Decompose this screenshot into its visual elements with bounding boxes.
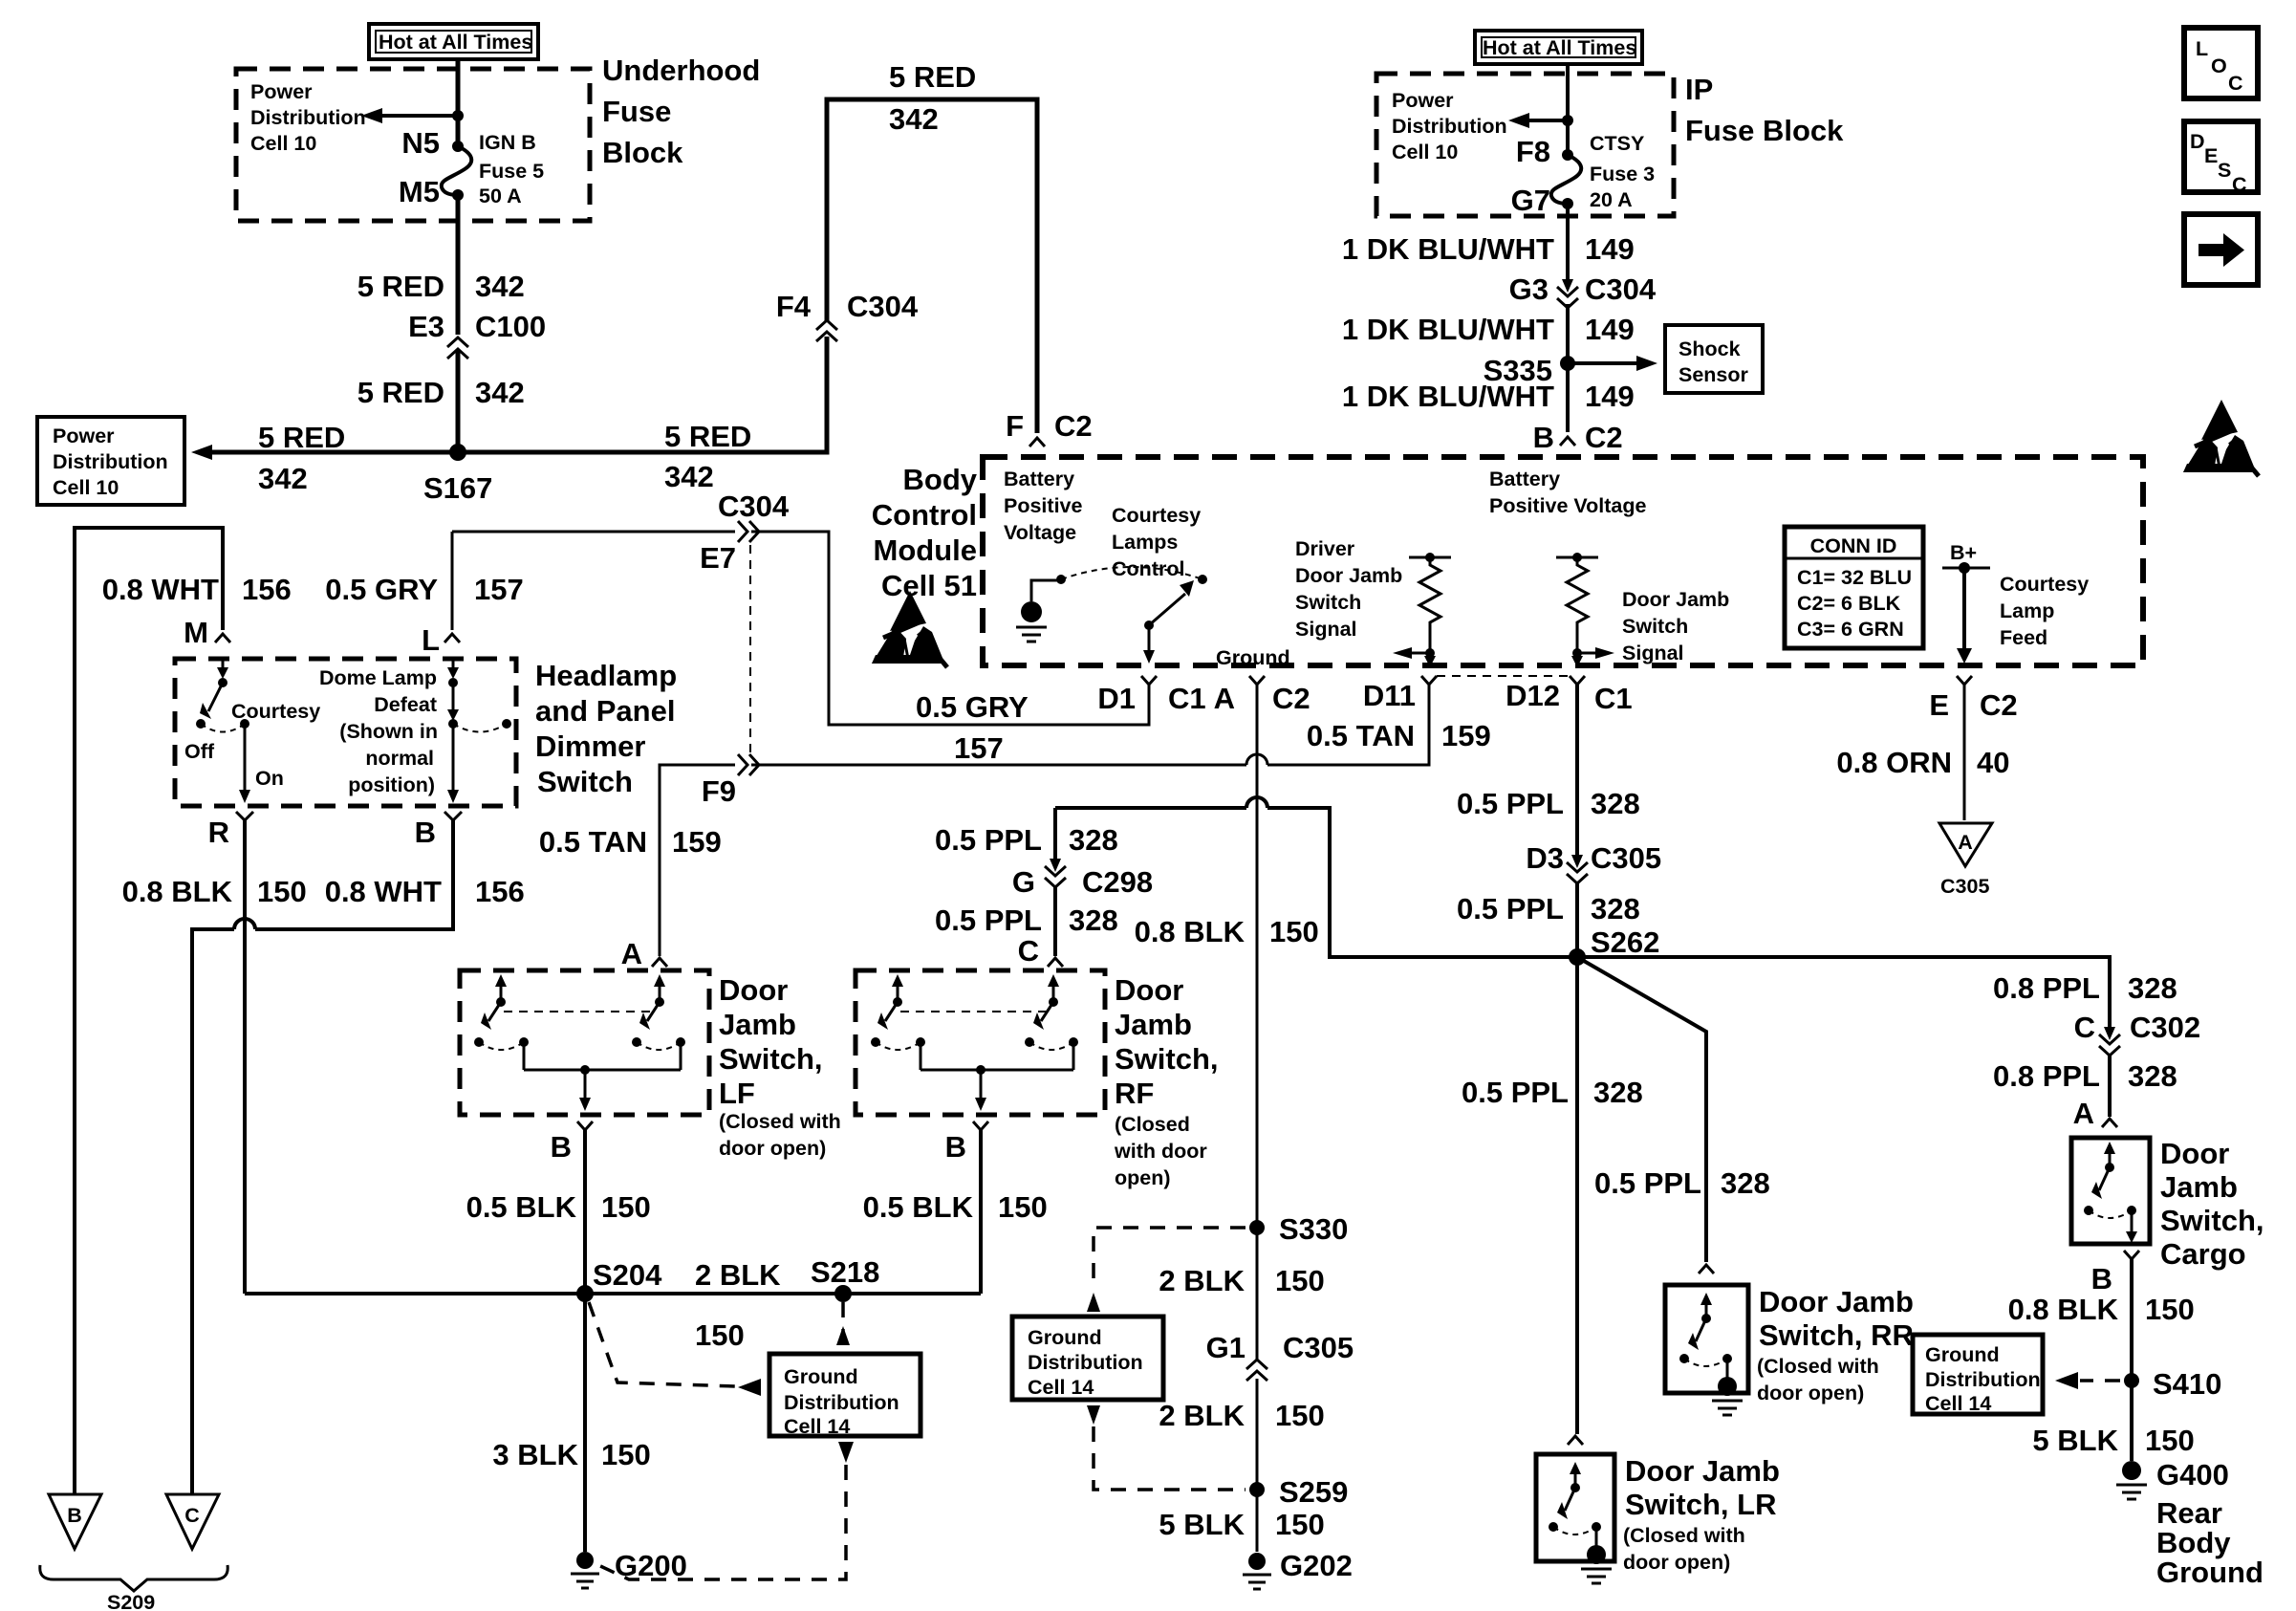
ground G400 xyxy=(2116,1461,2147,1499)
label: CTSY Fuse 3 20 A xyxy=(1590,132,1655,211)
svg-text:Door: Door xyxy=(719,973,788,1007)
svg-text:Distribution: Distribution xyxy=(784,1391,899,1414)
svg-text:Jamb: Jamb xyxy=(719,1008,796,1041)
svg-text:Distribution: Distribution xyxy=(250,106,366,129)
wire: arrow to Power Distribution xyxy=(382,114,458,118)
svg-text:Voltage: Voltage xyxy=(1004,521,1076,544)
svg-text:Cell 10: Cell 10 xyxy=(250,132,316,155)
svg-text:R: R xyxy=(208,816,229,849)
svg-text:1 DK BLU/WHT: 1 DK BLU/WHT xyxy=(1342,380,1554,413)
svg-text:D1: D1 xyxy=(1097,682,1136,715)
svg-text:S204: S204 xyxy=(593,1258,662,1292)
svg-text:2 BLK: 2 BLK xyxy=(1159,1264,1245,1297)
svg-text:G1: G1 xyxy=(1206,1331,1245,1364)
pin A of cargo switch xyxy=(2102,1119,2117,1127)
svg-text:C305: C305 xyxy=(1591,841,1661,875)
wire hop over ground wire xyxy=(1246,797,1267,808)
svg-text:Cell 14: Cell 14 xyxy=(1028,1376,1094,1399)
svg-text:150: 150 xyxy=(2145,1424,2195,1457)
pin F of BCM connector C2 xyxy=(1029,438,1045,446)
svg-text:Control: Control xyxy=(872,498,977,532)
svg-text:Switch,: Switch, xyxy=(2160,1204,2264,1237)
svg-text:S209: S209 xyxy=(107,1591,155,1611)
svg-text:(Closed with: (Closed with xyxy=(1757,1355,1879,1378)
resistor (driver door jamb switch signal pull-up) xyxy=(1393,553,1451,667)
label: (Closed with door open) xyxy=(1623,1524,1745,1574)
svg-text:normal: normal xyxy=(365,747,434,770)
svg-text:156: 156 xyxy=(242,573,292,606)
RF switch right contact set xyxy=(1025,974,1078,1050)
svg-text:0.5 PPL: 0.5 PPL xyxy=(1462,1076,1569,1109)
BCM pin row: D1 C1 xyxy=(1141,676,1157,685)
svg-text:159: 159 xyxy=(1441,719,1491,752)
label: Door Jamb Switch, RR xyxy=(1759,1285,1914,1352)
connector C100 (inline, up chevrons) xyxy=(447,337,468,359)
svg-text:0.5 PPL: 0.5 PPL xyxy=(1457,892,1564,925)
svg-text:Positive: Positive xyxy=(1004,494,1082,517)
wire: 0.5 PPL 328 diagonal from S262 to RR switch xyxy=(1577,957,1706,1262)
svg-text:B: B xyxy=(2091,1262,2112,1295)
svg-text:Battery: Battery xyxy=(1004,468,1074,490)
svg-text:342: 342 xyxy=(475,270,525,303)
fuse F3: CTSY Fuse 3 20 A xyxy=(1551,149,1581,209)
svg-text:N5: N5 xyxy=(401,126,440,160)
svg-text:150: 150 xyxy=(998,1190,1048,1224)
svg-text:150: 150 xyxy=(1275,1508,1325,1541)
LR switch contacts with ground xyxy=(1549,1462,1612,1583)
svg-text:2 BLK: 2 BLK xyxy=(695,1258,781,1292)
svg-text:150: 150 xyxy=(695,1318,745,1352)
svg-text:Feed: Feed xyxy=(2000,626,2047,649)
svg-text:5 RED: 5 RED xyxy=(664,420,751,453)
label: Battery Positive Voltage (left) xyxy=(1004,468,1082,544)
svg-text:Cell 10: Cell 10 xyxy=(53,476,119,499)
label: Dome Lamp Defeat (Shown in normal position) xyxy=(319,666,438,796)
svg-text:50 A: 50 A xyxy=(479,185,522,207)
pin B of BCM connector C2 xyxy=(1560,437,1575,446)
component: Door Jamb Switch RR box xyxy=(1665,1285,1748,1393)
svg-text:Switch: Switch xyxy=(1622,615,1688,638)
svg-text:5 RED: 5 RED xyxy=(357,376,444,409)
wire: 0.8 PPL 328 from S262 right to cargo branch xyxy=(1577,957,2110,1031)
svg-text:Fuse Block: Fuse Block xyxy=(1685,114,1844,147)
connector C298 G (inline, down arrow + chevrons) xyxy=(1045,859,1066,887)
svg-text:C304: C304 xyxy=(847,290,919,323)
svg-text:D3: D3 xyxy=(1526,841,1564,875)
RF switch left contact set xyxy=(871,974,925,1050)
component: Body Control Module dashed box xyxy=(983,457,2143,665)
icon: ESD symbol (top right corner) xyxy=(2183,400,2259,476)
svg-text:Positive Voltage: Positive Voltage xyxy=(1489,494,1647,517)
svg-text:328: 328 xyxy=(2128,1059,2177,1093)
svg-text:Distribution: Distribution xyxy=(53,450,168,473)
svg-text:0.5 PPL: 0.5 PPL xyxy=(935,823,1042,857)
svg-text:F8: F8 xyxy=(1516,135,1550,168)
label: Power Distribution Cell 10 (in underhood box) xyxy=(250,80,366,155)
wire: 1 DK BLU/WHT 149 to S335 xyxy=(1566,304,1570,432)
connector C304 F4 (inline, up chevrons) xyxy=(816,320,837,341)
svg-text:0.8 WHT: 0.8 WHT xyxy=(325,875,442,908)
label: Door Jamb Switch, LR xyxy=(1625,1454,1780,1521)
svg-text:328: 328 xyxy=(1591,787,1640,820)
svg-text:F9: F9 xyxy=(702,774,736,808)
svg-text:Door Jamb: Door Jamb xyxy=(1759,1285,1914,1318)
svg-text:Cell 14: Cell 14 xyxy=(784,1415,850,1438)
svg-text:B: B xyxy=(551,1130,572,1164)
svg-text:D: D xyxy=(2190,130,2205,153)
pin R of dimmer switch xyxy=(236,812,253,820)
connector C305 G1 (inline, up chevrons) xyxy=(1246,1360,1267,1381)
svg-text:0.5 GRY: 0.5 GRY xyxy=(916,690,1029,724)
svg-text:(Closed with: (Closed with xyxy=(1623,1524,1745,1547)
splice S218 xyxy=(834,1285,852,1302)
ground G200 xyxy=(571,1552,599,1588)
svg-text:Jamb: Jamb xyxy=(2160,1170,2238,1204)
label: Battery Positive Voltage (right) xyxy=(1489,468,1647,517)
svg-text:150: 150 xyxy=(2145,1293,2195,1326)
svg-text:B: B xyxy=(945,1130,966,1164)
label: Door Jamb Switch, Cargo xyxy=(2160,1137,2264,1271)
wire: arrow to Shock Sensor xyxy=(1568,361,1636,365)
svg-text:F4: F4 xyxy=(776,290,812,323)
LF output bus xyxy=(524,1042,681,1111)
icon: DESC box xyxy=(2184,121,2258,196)
svg-text:Switch, RR: Switch, RR xyxy=(1759,1318,1914,1352)
wire: arrow to Power Distribution xyxy=(1529,119,1568,122)
wire: feed into fuse 3 xyxy=(1566,64,1570,155)
svg-text:D11: D11 xyxy=(1363,679,1416,712)
svg-text:Body: Body xyxy=(2156,1526,2231,1559)
wire: 0.5 PPL 328 from S262 elbow down to C298 and pin C xyxy=(1053,808,1057,956)
svg-text:Defeat: Defeat xyxy=(374,693,437,716)
splice S204 xyxy=(576,1285,594,1302)
component: Ground Distribution Cell 14 box (right of S330) xyxy=(1012,1317,1163,1400)
svg-text:Control: Control xyxy=(1112,557,1184,580)
icon: LOC box xyxy=(2184,28,2258,98)
svg-text:Body: Body xyxy=(903,463,978,496)
label: Underhood Fuse Block xyxy=(602,54,760,169)
component: Ground Distribution Cell 14 box (center) xyxy=(769,1354,921,1438)
svg-text:A: A xyxy=(2073,1097,2094,1130)
svg-text:with door: with door xyxy=(1114,1140,1207,1163)
svg-text:Driver: Driver xyxy=(1295,537,1355,560)
svg-text:5 BLK: 5 BLK xyxy=(1159,1508,1245,1541)
svg-text:B: B xyxy=(415,816,436,849)
svg-text:342: 342 xyxy=(475,376,525,409)
svg-text:Ground: Ground xyxy=(1028,1326,1102,1349)
svg-text:C304: C304 xyxy=(1585,272,1657,306)
svg-text:Ground: Ground xyxy=(1216,646,1290,669)
wire: 0.8 BLK 150 from cargo pin B down to S410 xyxy=(2130,1259,2134,1461)
svg-text:157: 157 xyxy=(474,573,524,606)
svg-text:door open): door open) xyxy=(1623,1551,1730,1574)
wire hop over ground wire xyxy=(1246,754,1267,765)
svg-text:S218: S218 xyxy=(811,1255,879,1289)
svg-text:0.5 PPL: 0.5 PPL xyxy=(1594,1166,1701,1200)
splice S167 xyxy=(449,444,466,461)
svg-text:1 DK BLU/WHT: 1 DK BLU/WHT xyxy=(1342,232,1554,266)
svg-text:1 DK BLU/WHT: 1 DK BLU/WHT xyxy=(1342,313,1554,346)
svg-text:Module: Module xyxy=(874,533,978,567)
label: Headlamp and Panel Dimmer Switch xyxy=(535,659,677,798)
pin B of LF switch xyxy=(577,1121,593,1130)
svg-text:(Closed with: (Closed with xyxy=(719,1110,841,1133)
BCM pin row: D11 xyxy=(1421,676,1437,685)
component: Shock Sensor box xyxy=(1665,325,1763,393)
svg-text:342: 342 xyxy=(258,462,308,495)
node: junction to power distribution arrow xyxy=(1562,115,1573,126)
connector C302 C (inline, down arrow + chevrons) xyxy=(2099,1027,2120,1056)
svg-text:Underhood: Underhood xyxy=(602,54,760,87)
svg-text:Dome Lamp: Dome Lamp xyxy=(319,666,437,689)
svg-text:Switch: Switch xyxy=(537,765,633,798)
svg-text:B: B xyxy=(67,1504,82,1527)
connector link dashes D11-D12 xyxy=(1437,675,1570,677)
label: Courtesy Lamps Control xyxy=(1112,504,1201,580)
svg-text:G3: G3 xyxy=(1509,272,1549,306)
svg-text:C: C xyxy=(2074,1011,2095,1044)
svg-text:S: S xyxy=(2218,159,2231,182)
wire: 0.8 WHT 156 from pin B down, left, down to triangle C xyxy=(192,820,453,1494)
splice S262 xyxy=(1569,948,1586,966)
pin L of dimmer switch xyxy=(444,634,460,642)
label: Door Jamb Switch, LF xyxy=(719,973,823,1110)
svg-text:0.5 TAN: 0.5 TAN xyxy=(539,825,647,859)
wire: 0.5 GRY 157 from L up along top to connector C304 E7 xyxy=(452,531,735,533)
destination triangle C xyxy=(166,1494,219,1549)
component: CONN ID table xyxy=(1785,527,1923,648)
svg-text:A: A xyxy=(621,937,642,970)
svg-text:150: 150 xyxy=(1275,1399,1325,1432)
label: Hot at All Times (left box) xyxy=(369,24,538,59)
svg-text:Switch,: Switch, xyxy=(719,1042,823,1076)
RR switch contacts with ground xyxy=(1679,1293,1743,1415)
svg-text:B+: B+ xyxy=(1950,541,1977,564)
svg-text:0.8 BLK: 0.8 BLK xyxy=(2008,1293,2119,1326)
svg-text:B: B xyxy=(1533,421,1554,454)
label: Courtesy Lamp Feed xyxy=(2000,573,2089,649)
svg-text:0.5 PPL: 0.5 PPL xyxy=(935,903,1042,937)
splice S330 xyxy=(1249,1220,1265,1235)
svg-text:0.8 WHT: 0.8 WHT xyxy=(102,573,219,606)
connector link dashes C304 E7-F9 xyxy=(749,545,751,753)
wire: 0.5 PPL 328 from S262 down to LR switch xyxy=(1575,957,1579,1434)
mechanical link dashes in LF xyxy=(504,1011,657,1012)
connector C304 E7 (inline, right chevrons) xyxy=(738,521,759,542)
svg-text:Ground: Ground xyxy=(1925,1343,2000,1366)
svg-text:C: C xyxy=(184,1504,200,1527)
pin B of dimmer switch xyxy=(444,812,462,820)
pin B of RF switch xyxy=(973,1121,988,1130)
svg-text:S410: S410 xyxy=(2153,1367,2221,1401)
svg-text:Block: Block xyxy=(602,136,683,169)
svg-text:150: 150 xyxy=(601,1438,651,1471)
IP fuse block dashed box xyxy=(1376,74,1674,216)
svg-text:door open): door open) xyxy=(719,1137,826,1160)
LF switch left contact set xyxy=(474,974,529,1050)
svg-text:G7: G7 xyxy=(1511,184,1550,217)
dashed reference: S330 to Ground Distribution Cell 14 xyxy=(1087,1228,1245,1312)
svg-text:Rear: Rear xyxy=(2156,1496,2222,1530)
fuse F5: IGN B Fuse 5 50 A xyxy=(442,141,471,201)
brace under triangles xyxy=(40,1565,227,1591)
svg-text:C1= 32 BLU: C1= 32 BLU xyxy=(1797,566,1912,589)
svg-text:IGN B: IGN B xyxy=(479,131,536,154)
svg-text:3 BLK: 3 BLK xyxy=(492,1438,578,1471)
svg-text:O: O xyxy=(2211,54,2227,77)
svg-text:0.5 GRY: 0.5 GRY xyxy=(325,573,438,606)
connector C305 D3 (inline, down arrow + chevrons) xyxy=(1567,855,1588,883)
wire: 0.5 GRY 157 continues right, down, right to BCM pin D1 xyxy=(751,532,1149,725)
svg-text:Courtesy: Courtesy xyxy=(231,700,320,723)
svg-text:C2: C2 xyxy=(1054,409,1093,443)
destination triangle B xyxy=(49,1494,101,1549)
dashed reference: box to S259 xyxy=(1087,1405,1245,1490)
svg-text:C298: C298 xyxy=(1082,865,1153,899)
svg-text:328: 328 xyxy=(1593,1076,1643,1109)
wire: 0.5 BLK 150 from RF pin B to ground bus xyxy=(979,1130,983,1294)
svg-text:2 BLK: 2 BLK xyxy=(1159,1399,1245,1432)
wire: 2 BLK 150 ground bus xyxy=(245,1292,981,1295)
svg-text:L: L xyxy=(2196,37,2208,60)
BCM pin row: E C2 xyxy=(1957,676,1972,685)
svg-text:20 A: 20 A xyxy=(1590,188,1633,211)
svg-text:E3: E3 xyxy=(408,310,444,343)
pin of RR switch xyxy=(1699,1265,1714,1274)
svg-text:157: 157 xyxy=(954,731,1004,765)
wire: 1 DK BLU/WHT 149 below IP box xyxy=(1566,204,1570,283)
wire: 0.5 BLK 150 from LF pin B to S204 xyxy=(583,1130,587,1294)
svg-text:Cargo: Cargo xyxy=(2160,1237,2246,1271)
component: Door Jamb Switch LR box xyxy=(1536,1454,1614,1561)
svg-text:Fuse: Fuse xyxy=(602,95,671,128)
svg-text:S167: S167 xyxy=(423,471,492,505)
label: (Closed with door open) xyxy=(1757,1355,1879,1404)
wire: 0.5 GRY 157 from C304 E7 line down to pin L xyxy=(451,532,454,630)
svg-text:D12: D12 xyxy=(1505,679,1560,712)
wire: 0.8 ORN 40 xyxy=(1963,685,1966,820)
underhood fuse block dashed box xyxy=(236,69,590,221)
svg-text:159: 159 xyxy=(672,825,722,859)
cargo switch contacts xyxy=(2084,1142,2137,1243)
svg-text:Off: Off xyxy=(184,740,215,763)
label: Power Distribution Cell 10 (in IP box) xyxy=(1392,89,1507,163)
label: Door Jamb Switch Signal (right) xyxy=(1622,588,1729,664)
wire: 3 BLK 150 from S204 down to G200 xyxy=(583,1294,587,1552)
wire: 0.8 BLK 150 from BCM pin A down to G202 xyxy=(1256,685,1259,1552)
svg-text:149: 149 xyxy=(1585,380,1635,413)
dimmer dome lamp defeat switch (right half) xyxy=(447,659,511,803)
svg-text:Lamps: Lamps xyxy=(1112,531,1178,554)
svg-text:C2: C2 xyxy=(1585,421,1623,454)
svg-text:IP: IP xyxy=(1685,73,1713,106)
svg-text:0.5 BLK: 0.5 BLK xyxy=(863,1190,974,1224)
icon: ESD symbol (inside BCM label area) xyxy=(872,591,947,667)
svg-text:S262: S262 xyxy=(1591,925,1659,959)
svg-text:Distribution: Distribution xyxy=(1028,1351,1143,1374)
svg-text:Hot at All Times: Hot at All Times xyxy=(1483,36,1636,59)
wire: 0.8 PPL 328 from C302 to cargo switch pin A xyxy=(2108,1056,2112,1117)
svg-text:0.8 BLK: 0.8 BLK xyxy=(122,875,233,908)
mechanical link dashes in RF xyxy=(900,1011,1051,1012)
svg-text:Fuse 3: Fuse 3 xyxy=(1590,163,1655,185)
svg-text:Door: Door xyxy=(1115,973,1183,1007)
svg-text:Switch: Switch xyxy=(1295,591,1361,614)
svg-text:On: On xyxy=(255,767,284,790)
svg-text:Power: Power xyxy=(250,80,313,103)
svg-text:C1: C1 xyxy=(1594,682,1633,715)
wire: 5 RED 342 from fuse M5 down to S167 xyxy=(456,195,461,335)
svg-text:E: E xyxy=(1929,688,1949,722)
component: Door Jamb Switch Cargo box xyxy=(2071,1138,2150,1244)
svg-text:Cell 14: Cell 14 xyxy=(1925,1392,1991,1415)
svg-text:G: G xyxy=(1012,865,1035,899)
splice S335 xyxy=(1560,356,1575,371)
label: G400 Rear Body Ground xyxy=(2156,1458,2264,1589)
svg-text:328: 328 xyxy=(1069,903,1118,937)
component: Door Jamb Switch LF dashed box xyxy=(460,970,709,1115)
svg-text:CONN ID: CONN ID xyxy=(1810,534,1897,557)
svg-text:0.8 PPL: 0.8 PPL xyxy=(1993,1059,2100,1093)
svg-text:Door Jamb: Door Jamb xyxy=(1295,564,1402,587)
svg-text:door open): door open) xyxy=(1757,1382,1864,1404)
ground G202 xyxy=(1243,1553,1271,1589)
svg-text:G202: G202 xyxy=(1280,1549,1353,1582)
svg-text:Switch, LR: Switch, LR xyxy=(1625,1488,1776,1521)
dashed reference: S410 to Ground Distribution Cell 14 xyxy=(2055,1372,2120,1389)
svg-text:156: 156 xyxy=(475,875,525,908)
svg-text:Battery: Battery xyxy=(1489,468,1560,490)
label: (Closed with door open) xyxy=(1114,1113,1207,1189)
wire: 0.5 TAN 159 from F9 right to BCM pin D11 xyxy=(751,685,1429,765)
wire: feed from Hot at All Times into fuse xyxy=(456,59,461,146)
svg-text:open): open) xyxy=(1115,1166,1171,1189)
svg-text:E7: E7 xyxy=(700,541,736,575)
svg-text:0.5 TAN: 0.5 TAN xyxy=(1307,719,1415,752)
svg-text:Courtesy: Courtesy xyxy=(1112,504,1201,527)
svg-text:Courtesy: Courtesy xyxy=(2000,573,2089,596)
svg-text:Door Jamb: Door Jamb xyxy=(1625,1454,1780,1488)
svg-text:149: 149 xyxy=(1585,313,1635,346)
splice S259 xyxy=(1249,1482,1265,1497)
svg-text:0.5 PPL: 0.5 PPL xyxy=(1457,787,1564,820)
component: Ground Distribution Cell 14 box (right) xyxy=(1913,1335,2043,1415)
svg-text:CTSY: CTSY xyxy=(1590,132,1644,155)
svg-text:C302: C302 xyxy=(2130,1011,2200,1044)
dashed reference: Ground Distribution box to G200 xyxy=(598,1442,854,1579)
svg-text:and Panel: and Panel xyxy=(535,694,675,728)
svg-text:328: 328 xyxy=(1591,892,1640,925)
svg-text:Sensor: Sensor xyxy=(1679,363,1749,386)
svg-text:40: 40 xyxy=(1977,746,2009,779)
wire: 5 RED 342 from S167 right and up to C304 F4 xyxy=(458,337,827,452)
connector C304 G3 (inline, down arrow + chevrons) xyxy=(1557,279,1578,308)
label: Body Control Module Cell 51 xyxy=(872,463,978,602)
svg-text:Signal: Signal xyxy=(1622,642,1684,664)
svg-text:Distribution: Distribution xyxy=(1925,1368,2041,1391)
pin A of LF switch xyxy=(652,958,667,967)
svg-text:S330: S330 xyxy=(1279,1212,1348,1246)
svg-text:Signal: Signal xyxy=(1295,618,1357,641)
svg-text:328: 328 xyxy=(1069,823,1118,857)
svg-text:150: 150 xyxy=(1275,1264,1325,1297)
svg-text:342: 342 xyxy=(664,460,714,493)
svg-text:Dimmer: Dimmer xyxy=(535,729,645,763)
label: Door Jamb Switch, RF xyxy=(1115,973,1219,1110)
svg-text:Ground: Ground xyxy=(784,1365,858,1388)
svg-text:328: 328 xyxy=(2128,971,2177,1005)
connector C305 destination triangle A xyxy=(1939,823,1992,898)
